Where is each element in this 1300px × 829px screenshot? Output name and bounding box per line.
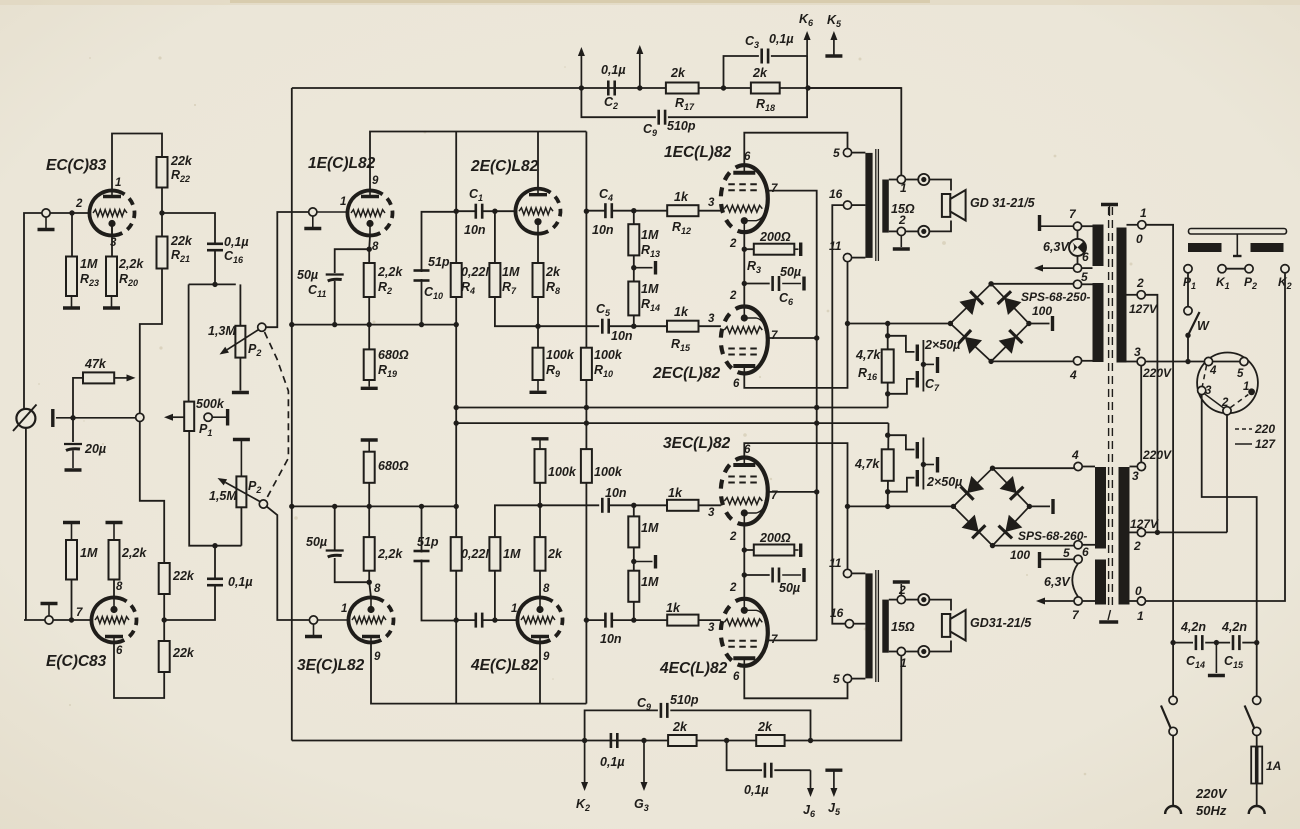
arrow P1 wiper	[164, 414, 184, 421]
wire rail to speaker terminal	[808, 88, 901, 175]
node C4 junction	[584, 209, 589, 214]
label 50u lower	[306, 535, 327, 549]
terminal 4 PT lower	[1074, 462, 1082, 470]
capacitor 0.1u lower	[207, 579, 223, 585]
wire R7 top	[494, 211, 496, 263]
pin 6 label 1EC	[744, 151, 751, 163]
svg-text:50µ: 50µ	[779, 581, 800, 595]
label 50u out lower	[779, 581, 800, 595]
svg-text:10n: 10n	[592, 223, 614, 237]
node R14 lower tap	[631, 617, 636, 622]
wire sec2 to jack	[905, 230, 918, 232]
label C14	[1180, 620, 1206, 670]
wire sec1 lead	[889, 179, 897, 181]
svg-text:7: 7	[771, 183, 778, 195]
svg-text:4: 4	[1069, 368, 1077, 382]
svg-text:0,1µ: 0,1µ	[744, 783, 769, 797]
svg-text:SPS-68-250-: SPS-68-250-	[1021, 290, 1090, 304]
potentiometer P2 1.5M	[236, 476, 246, 507]
terminal 3 PT right lower	[1137, 462, 1145, 470]
label 11 lower OT	[829, 556, 842, 570]
tube V1 EC(C)83 upper triode	[84, 185, 139, 240]
resistor R20 2.2k	[106, 257, 117, 297]
wire 4 to winding	[1082, 360, 1093, 362]
connector P2 upper tap	[258, 323, 266, 331]
node C14 left	[1170, 640, 1175, 645]
label 4 PT	[1069, 368, 1077, 382]
node rail2 R2R19	[367, 504, 372, 509]
node R16 lower bottom	[885, 489, 890, 494]
tube V3 1E(C)L82	[342, 185, 397, 240]
node rail R4	[454, 322, 459, 327]
node C4 junction lower	[584, 617, 589, 622]
wire C3 to K6	[771, 55, 807, 57]
label J6	[803, 803, 816, 819]
label 3E(C)L82	[297, 657, 365, 674]
label 1,3M	[208, 324, 261, 358]
wire 2 bus down	[1145, 295, 1157, 533]
wire t16 to primary	[852, 204, 866, 206]
svg-text:1M: 1M	[641, 575, 659, 589]
wire C4 lower to R12	[612, 619, 667, 621]
svg-text:8: 8	[372, 241, 379, 253]
resistor 680 lower	[364, 452, 375, 483]
svg-text:4,2n: 4,2n	[1221, 620, 1247, 634]
wire bridge1 minus	[991, 360, 1073, 362]
ground 20u	[65, 451, 82, 471]
svg-text:2: 2	[1133, 539, 1141, 553]
terminal 6 PT lower	[1074, 555, 1082, 563]
bar R3 end	[794, 243, 800, 257]
svg-text:2E(C)L82: 2E(C)L82	[470, 158, 539, 175]
svg-text:E(C)C83: E(C)C83	[46, 653, 107, 670]
resistor R3 200	[754, 244, 795, 255]
wire P2 lower to bus	[240, 507, 242, 545]
bar terminal 6 lower	[1040, 552, 1075, 568]
label 16 OT	[829, 187, 843, 201]
svg-text:100k: 100k	[546, 348, 575, 362]
pin 7 label 2EC	[771, 330, 778, 342]
wire pin7 4EC	[768, 639, 817, 641]
wire C7 lower bottom branch	[888, 478, 915, 492]
label sel 1	[1243, 381, 1249, 393]
wire w to 2	[1127, 294, 1138, 296]
svg-text:2×50µ: 2×50µ	[926, 475, 962, 489]
node C3 branch	[721, 85, 726, 90]
node bridge2 R16 tap	[885, 504, 890, 509]
svg-text:0,1µ: 0,1µ	[228, 575, 253, 589]
resistor R17 2k	[666, 83, 699, 94]
output transformer 1 primary	[865, 153, 872, 258]
terminal 4 PT upper	[1073, 357, 1081, 365]
wire 680 to rail lower	[368, 483, 370, 507]
arrow up K6	[804, 31, 811, 56]
label R17	[670, 66, 695, 112]
label 5 PT	[1081, 270, 1088, 284]
output transformer 1 core	[876, 149, 879, 261]
tube V6 4E(C)L82	[512, 592, 567, 647]
wire feedback loop top	[581, 88, 656, 117]
node rail2 C11	[332, 504, 337, 509]
node C1 junction lower	[454, 617, 459, 622]
node cathode 3E	[367, 580, 372, 585]
svg-text:100: 100	[1032, 304, 1052, 318]
label sel 5	[1237, 368, 1244, 380]
output transformer 2 secondary	[882, 600, 889, 653]
ground P2 upper	[232, 391, 249, 394]
wire input to left bus	[24, 213, 42, 409]
wire C10 up	[422, 212, 457, 272]
capacitor C10 lower 51p	[414, 551, 430, 561]
wire R13 top	[633, 211, 635, 225]
voltage selector circle	[1197, 353, 1258, 414]
wire 6 to winding	[1082, 267, 1093, 269]
potentiometer P2 1.3M	[235, 326, 245, 358]
svg-text:2k: 2k	[670, 66, 686, 80]
svg-text:1: 1	[1243, 381, 1249, 393]
wire R15 lower to pin3 3EC	[699, 504, 721, 506]
ground R20	[103, 296, 120, 308]
wire 22k to V lower plate	[114, 643, 164, 699]
terminal 16 lower OT	[845, 620, 853, 628]
svg-text:0,1µ: 0,1µ	[769, 32, 794, 46]
grid terminal 3E	[309, 616, 348, 624]
node cathode line cross lower	[537, 503, 542, 508]
svg-text:16: 16	[829, 187, 843, 201]
capacitor C1 lower 10n	[476, 613, 482, 628]
wire ground rail 2	[456, 422, 888, 424]
svg-text:1M: 1M	[80, 257, 98, 271]
grid terminal 1E	[309, 208, 348, 216]
svg-text:220V: 220V	[1195, 786, 1228, 801]
capacitor C14 4.2n	[1196, 635, 1202, 650]
wire R7 lower down	[494, 571, 496, 620]
label sel 2	[1221, 397, 1229, 409]
wire 2.2k to rail lower	[368, 506, 370, 537]
svg-text:10n: 10n	[611, 329, 633, 343]
resistor 2.2k lower	[109, 540, 120, 580]
bar above 680 lower	[361, 440, 378, 452]
wire C7 lower top branch	[888, 435, 915, 449]
svg-text:4: 4	[1071, 448, 1079, 462]
speaker GD31 lower	[942, 610, 966, 641]
wire fuse down	[1256, 784, 1258, 807]
node rail2 C10	[419, 504, 424, 509]
svg-text:50µ: 50µ	[297, 268, 318, 282]
resistor R21 22k	[157, 237, 168, 269]
svg-text:22k: 22k	[172, 569, 195, 583]
wire pin6 1EC to trafo	[744, 133, 847, 166]
label 2 right lower	[1130, 517, 1159, 553]
svg-text:1M: 1M	[641, 282, 659, 296]
pin 2 label 4EC	[729, 582, 737, 594]
label K2 bottom	[576, 797, 590, 813]
terminal 0-1 PT right lower	[1137, 597, 1145, 605]
wire bridge2 minus	[993, 545, 1075, 547]
label G3	[634, 797, 649, 813]
label 0.1u J	[744, 783, 769, 797]
svg-text:51p: 51p	[428, 255, 450, 269]
switch mains right	[1245, 696, 1261, 735]
svg-text:4,7k: 4,7k	[855, 348, 881, 362]
node rail1 cathodes	[814, 405, 819, 410]
label E(C)C83	[46, 653, 107, 670]
svg-text:220V: 220V	[1142, 448, 1172, 462]
panel black bar right	[1251, 243, 1284, 252]
svg-text:1: 1	[1140, 206, 1147, 220]
wire pin7 3EC	[768, 491, 817, 493]
label R4 lower	[461, 547, 496, 561]
wire bridge2 plus	[993, 467, 1075, 469]
pin 2 label 3EC	[729, 531, 737, 543]
wire mains right	[1256, 643, 1258, 697]
wire ground rail 1	[456, 407, 888, 409]
capacitor C5 lower 10n	[602, 498, 608, 513]
wire sel 4-5	[1213, 361, 1240, 363]
terminal 7 PT lower	[1074, 597, 1082, 605]
wire C4 left	[586, 210, 605, 212]
capacitor C16 0.1u	[207, 244, 223, 250]
wire C5 to R15	[609, 325, 667, 327]
svg-text:2: 2	[729, 531, 737, 543]
node bridge1 R16 tap	[885, 321, 890, 326]
node rail R2R19	[367, 322, 372, 327]
capacitor C7b	[917, 364, 923, 391]
svg-text:3E(C)L82: 3E(C)L82	[297, 657, 365, 674]
wire bridge2 feed	[848, 505, 954, 507]
wire t11 lower to primary	[852, 572, 866, 574]
pin 7 label 4EC	[771, 634, 778, 646]
potentiometer P1 500k	[184, 402, 194, 431]
wire between 22k pair	[163, 594, 165, 641]
label 2k fb right	[757, 720, 773, 734]
wire C14 lead	[1173, 642, 1193, 644]
wire 1 bus down	[1146, 225, 1173, 643]
resistor R7 1M	[489, 263, 500, 297]
label 1EC(L)82	[664, 144, 732, 161]
node rail2j R4	[454, 420, 459, 425]
wire R7 to C5 line	[495, 297, 599, 326]
output transformer 2 core	[876, 570, 879, 682]
wire R12 lower to pin3 4EC	[699, 619, 721, 621]
legend 220 dashed	[1235, 422, 1275, 436]
resistor 2k fb right	[756, 735, 784, 746]
connector bar above P2 lower	[233, 440, 250, 477]
pin 8 label	[116, 581, 123, 593]
label K2 jack	[1278, 275, 1292, 291]
capacitor C3 0.1u	[762, 49, 768, 64]
mains hook right	[1249, 806, 1265, 814]
bar J5 terminal	[825, 770, 842, 797]
label 6 PT	[1082, 250, 1089, 264]
svg-text:20µ: 20µ	[84, 442, 106, 456]
label C9 bottom	[637, 693, 699, 712]
resistor R22 22k	[157, 157, 168, 188]
wire P1 down	[1187, 273, 1189, 307]
label sel 3	[1205, 385, 1212, 397]
svg-text:510p: 510p	[670, 693, 699, 707]
wire bridge2 ac2	[1029, 505, 1050, 507]
label 4.7k lower	[854, 457, 880, 471]
wire R7 lower to C5 line	[495, 505, 599, 537]
label C2	[601, 63, 626, 111]
node rail C11	[332, 322, 337, 327]
ganged shaft dashed link	[265, 332, 289, 500]
wire C16 to P-network	[214, 251, 216, 285]
arrow down G3	[641, 741, 648, 792]
svg-text:1,5M: 1,5M	[209, 489, 237, 503]
node rail arrow 1	[579, 85, 584, 90]
svg-text:2k: 2k	[672, 720, 688, 734]
label R2	[377, 265, 403, 296]
wire mains left down	[1172, 736, 1174, 807]
wire C3 branch	[724, 56, 759, 88]
wire R10 bus down	[585, 132, 587, 704]
label R13	[641, 228, 660, 259]
wire bridge1 feed	[848, 323, 951, 325]
resistor R23 1M	[66, 257, 77, 297]
capacitor C7d	[917, 465, 923, 490]
label 1E(C)L82	[308, 155, 376, 172]
wire C1 lower left	[456, 619, 476, 621]
label sec2 lower	[898, 583, 906, 597]
wire C1 to 2E grid	[456, 210, 476, 212]
resistor R19 680	[364, 349, 375, 380]
resistor 2.2k lower drv	[364, 537, 375, 571]
power transformer left winding d	[1095, 560, 1106, 605]
wire lamp to 6	[1077, 256, 1079, 264]
wire bridge1 ac2	[1029, 323, 1050, 325]
label R7	[502, 265, 520, 296]
connector P2 lower tap	[259, 500, 267, 508]
node C5-R15 junction	[631, 324, 636, 329]
rectifier bridge SPS-68-250-100	[948, 281, 1032, 364]
wire plate 4E	[539, 643, 541, 704]
label R8	[545, 265, 561, 296]
wire junction to C16	[162, 213, 215, 243]
resistor R2 2.2k	[364, 263, 375, 297]
wire w to 01L	[1130, 600, 1138, 602]
label 5 OT	[833, 146, 840, 160]
resistor R9 lower 100k	[535, 449, 546, 483]
capacitor C7c	[917, 438, 923, 465]
node rail2j cathodes	[814, 420, 819, 425]
capacitor 0.1u bottom	[611, 733, 617, 748]
label 1,5M	[209, 479, 261, 503]
wire w to 3L	[1130, 466, 1138, 468]
wire to C11	[335, 249, 370, 273]
capacitor C15 4.2n	[1233, 635, 1239, 650]
label R4	[461, 265, 496, 296]
node rail1 R10	[584, 405, 589, 410]
core ground top	[1101, 205, 1118, 217]
svg-text:10n: 10n	[605, 486, 627, 500]
wire plate line upper	[370, 132, 586, 191]
svg-text:7: 7	[771, 330, 778, 342]
jack K2	[1281, 265, 1289, 273]
label EC(C)83	[46, 157, 107, 174]
label R22	[170, 154, 193, 184]
jack upper speaker 1	[918, 174, 929, 185]
bias tap bar	[634, 261, 656, 275]
wire to J6	[774, 769, 810, 771]
svg-text:3: 3	[708, 507, 715, 519]
terminal 16 upper OT	[843, 201, 851, 209]
svg-text:3: 3	[1132, 469, 1139, 483]
pickup input symbol	[13, 405, 37, 432]
node 11 to bridge	[845, 321, 850, 326]
label R9 lower	[548, 465, 577, 479]
label R8 lower	[547, 547, 563, 561]
resistor R4 0.22M	[451, 263, 462, 297]
svg-text:1: 1	[341, 603, 347, 615]
wire R13-R14 lower	[633, 547, 635, 570]
node bias tap lower	[631, 559, 636, 564]
svg-text:100k: 100k	[594, 348, 623, 362]
ground below 3E input	[305, 624, 322, 636]
label C15	[1221, 620, 1247, 670]
node R13 tap	[631, 208, 636, 213]
label sec 1	[900, 181, 907, 195]
label 22k lower	[172, 646, 195, 660]
label K1 jack	[1216, 275, 1230, 291]
label J5	[828, 801, 841, 817]
node C5-R15 junction lower	[631, 503, 636, 508]
bar terminal 7	[1040, 215, 1074, 231]
jack upper speaker 2	[918, 226, 929, 237]
label R16	[855, 348, 881, 382]
resistor R10 lower 100k	[581, 449, 592, 483]
capacitor C7a	[917, 340, 923, 364]
ground above lower input	[41, 604, 58, 616]
label 0-1 lower	[1135, 584, 1144, 623]
wire R14 to C5 line	[633, 315, 635, 326]
power transformer left winding b	[1093, 283, 1104, 362]
node rail arrow 2	[637, 85, 642, 90]
wire 47k left lead	[73, 378, 83, 418]
pin 6 label	[116, 645, 123, 657]
label sel 4	[1209, 365, 1217, 377]
svg-text:9: 9	[543, 651, 550, 663]
label 2EC(L)82	[652, 365, 721, 382]
label C6	[779, 265, 801, 307]
switch W contact	[1184, 307, 1192, 315]
label 4E(C)L82	[470, 657, 539, 674]
node rail2 x292	[289, 504, 294, 509]
label 15 ohm	[891, 202, 915, 216]
rectifier bridge SPS-68-260-100	[951, 466, 1032, 549]
svg-text:510p: 510p	[667, 119, 696, 133]
ground below 1E input	[304, 216, 321, 228]
tube V9 3EC(L)82	[721, 458, 768, 525]
svg-text:3: 3	[708, 197, 715, 209]
wire jack to speaker lower 1	[929, 600, 951, 611]
wire jack2 to speaker	[929, 221, 951, 232]
node rail1 R4	[454, 405, 459, 410]
svg-text:680Ω: 680Ω	[378, 348, 409, 362]
label 2 right	[1129, 276, 1158, 316]
wire top bus to P1	[188, 284, 190, 401]
resistor R9 100k	[533, 348, 544, 380]
label 200 lower	[759, 531, 791, 545]
label R21	[170, 234, 193, 264]
node plate divider junction	[159, 210, 164, 215]
label C11	[297, 268, 326, 299]
svg-text:22k: 22k	[172, 646, 195, 660]
wire to C11 lower	[335, 558, 370, 582]
label P1 500k	[196, 397, 225, 438]
wire input to grid V1	[50, 212, 89, 214]
